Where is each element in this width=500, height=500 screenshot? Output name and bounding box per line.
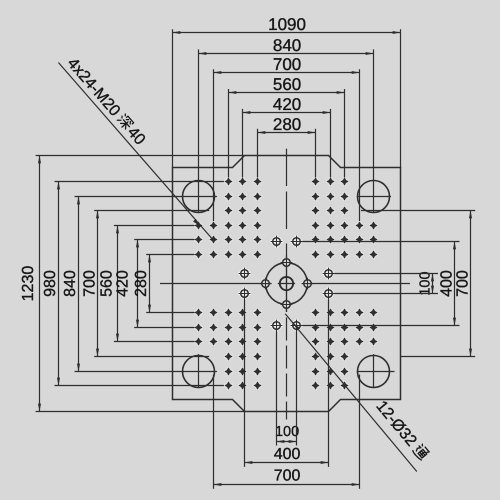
extension line top, column -210 [242,109,244,177]
extension line left, row +210 [134,327,194,329]
extension line top, column -350 [213,69,215,221]
dimension 700 (right) [454,211,471,357]
hole Phi32 north of center [281,257,293,269]
svg-text:700: 700 [454,270,471,297]
svg-text:1230: 1230 [20,266,37,302]
hole Phi32 left lower [238,287,251,300]
extension line top, column -420 through corner hole [198,49,200,213]
M20 tapped hole grid, bottom-right quadrant (24 holes) [311,308,378,390]
extension line top, column +420 through corner hole [373,49,375,213]
hole Phi32 east of center [302,278,314,290]
extension line top, column -140 [257,129,259,178]
svg-text:420: 420 [273,95,301,114]
corner hole top-left [183,181,215,213]
extension line left, row -490 [55,181,224,183]
extension line right, row -350 [361,210,475,212]
svg-text:280: 280 [133,270,150,297]
svg-text:280: 280 [273,115,301,134]
extension line right, row -50 from Phi32 hole [332,273,438,275]
extension line left, row -210 [134,239,194,241]
dimension 420 (top) [243,95,331,114]
extension line left, top plate edge [36,155,245,157]
extension line top, left plate edge [172,29,174,168]
dimension 700 (bottom) [214,468,360,485]
dimension 1230 (left) [20,156,39,412]
extension line right, row +200 from Phi32 hole [301,325,459,327]
center vertical mark through ring [286,255,288,311]
hole Phi32 bottom right [290,319,303,332]
extension line left, row +350 [94,356,209,358]
extension line top, column -280 [228,89,230,177]
svg-text:560: 560 [273,75,301,94]
extension line top, column +210 [330,109,332,177]
extension line top, column +350 [359,69,361,221]
svg-text:1090: 1090 [268,15,306,34]
svg-text:100: 100 [417,271,433,295]
extension line left, row +280 [114,341,195,343]
dimension 420 (left) [115,240,138,328]
center mark corner hole top-right [357,196,391,198]
center locating ring (large circle) [266,263,308,305]
dimension 100 (right) [417,271,433,295]
dimension 980 (left) [42,182,59,386]
dimension 400 (bottom) [245,446,329,463]
hole Phi32 top right [290,235,303,248]
extension line left, row +420 through corner hole [75,371,217,373]
dimension 840 (left) [62,197,79,372]
hole Phi32 bottom left [270,319,283,332]
hole Phi32 left upper [238,267,251,280]
hole Phi32 south of center [281,299,293,311]
extension line right, row +50 from Phi32 hole [332,293,438,295]
extension line bottom, column -350 [213,375,215,489]
M20 tapped hole grid, bottom-left quadrant (24 holes) [194,308,262,390]
extension line bottom, column +350 [359,375,361,489]
svg-text:400: 400 [438,270,455,297]
center mark corner hole bottom-left [198,354,200,388]
hole Phi32 right upper [322,267,335,280]
platen plate outline (1090 x 1230, chamfered corners) [173,156,401,412]
dimension 100 (bottom) [275,424,299,442]
extension line bottom, column +200 from Phi32 hole [328,298,330,467]
svg-text:420: 420 [115,270,132,297]
extension line left, row -420 through corner hole [75,196,217,198]
svg-text:700: 700 [274,468,301,485]
dimension 1090 (top) [173,15,401,34]
dimension 840 (top) [199,36,374,55]
svg-text:400: 400 [274,446,301,463]
extension line top, column +140 [315,129,317,178]
extension line left, bottom plate edge [36,411,245,413]
extension line left, row -140 [146,254,194,256]
horizontal centerline [160,283,410,285]
leader text 12-Phi32 through [372,398,430,463]
center inner hole [280,277,293,290]
center mark corner hole bottom-right [357,354,395,388]
extension line bottom, column -50 from Phi32 hole [276,330,278,446]
extension line bottom, column +50 from Phi32 hole [296,330,298,446]
hole Phi32 west of center [260,278,272,290]
extension line left, row -280 [114,225,195,227]
M20 tapped hole grid, top-left quadrant (24 holes) [194,177,262,259]
extension line top, right plate edge [400,29,402,168]
extension line bottom, column -200 from Phi32 hole [244,298,246,467]
corner hole bottom-left [183,356,215,388]
extension line left, row -350 [94,210,209,212]
dimension 560 (top) [229,75,345,94]
hole Phi32 top left [270,235,283,248]
svg-text:840: 840 [273,36,301,55]
dimension 700 (top) [214,55,360,74]
svg-text:100: 100 [275,424,299,440]
leader line 4x24-M20 deep40 [58,63,213,241]
extension line right, row +350 [400,356,475,358]
extension line top, column +280 [344,89,346,177]
extension line right, row -200 from Phi32 hole [301,241,459,243]
dimension 400 (right) [438,242,455,326]
dimension 280 (left) [133,255,150,313]
svg-text:980: 980 [42,270,59,297]
dimension 700 (left) [82,211,99,357]
leader line 12-Phi32 through [285,314,417,472]
extension line left, row +140 [146,312,194,314]
svg-text:700: 700 [273,55,301,74]
dimension 560 (left) [99,226,118,342]
svg-text:700: 700 [82,270,99,297]
vertical centerline [286,149,288,420]
M20 tapped hole grid, top-right quadrant (24 holes) [311,177,378,259]
svg-text:840: 840 [62,270,79,297]
corner hole bottom-right [358,356,390,388]
leader text 4x24-M20 deep40 [64,55,149,149]
svg-text:560: 560 [99,270,116,297]
extension line left, row +490 [55,385,224,387]
dimension 280 (top) [258,115,316,134]
hole Phi32 right lower [322,287,335,300]
corner hole top-right [358,181,390,213]
